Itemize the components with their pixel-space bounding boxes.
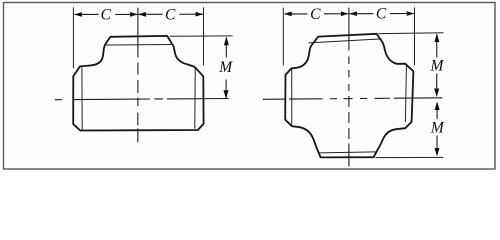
arrowhead M-bottom up (cross)	[435, 102, 440, 111]
svg-text:M: M	[218, 59, 233, 76]
M extension line from top branch (cross)	[379, 32, 444, 35]
arrowhead M-top up (cross)	[434, 34, 439, 43]
border frame	[4, 3, 496, 170]
tee right bevel line	[194, 68, 196, 129]
arrowhead C-right inner	[138, 12, 146, 17]
arrowhead C-left outer (cross)	[284, 12, 292, 17]
C dimension extension line right (cross)	[414, 8, 416, 66]
C dimension extension line left (cross)	[282, 8, 284, 66]
cross horizontal centerline	[263, 98, 443, 100]
M top dimension line (cross)	[436, 35, 438, 96]
svg-text:M: M	[430, 120, 445, 137]
C dimension extension line left	[72, 7, 74, 68]
svg-text:M: M	[429, 58, 444, 75]
tee outline	[73, 36, 203, 131]
arrowhead C-right outer (cross)	[407, 11, 415, 16]
cross bottom branch face line	[319, 152, 376, 153]
cross top branch face line	[309, 39, 382, 43]
arrowhead M-top down (cross)	[434, 89, 439, 98]
M bottom extension line from bottom branch face	[376, 156, 444, 158]
C dimension line right half (cross)	[350, 13, 414, 15]
arrowhead C-right outer	[196, 12, 204, 17]
C dimension extension line right	[203, 7, 205, 65]
cross outline	[285, 34, 413, 158]
svg-text:C: C	[310, 6, 321, 23]
cross left bevel line	[291, 69, 293, 125]
svg-text:C: C	[101, 7, 112, 24]
M dimension line (tee)	[225, 38, 227, 99]
tee horizontal centerline	[55, 99, 229, 100]
M bottom dimension line (cross)	[436, 103, 438, 155]
arrowhead C-left inner (cross)	[341, 11, 349, 16]
arrowhead C-left outer	[74, 12, 82, 17]
arrowhead M-top (tee)	[224, 37, 229, 46]
C dimension line left half	[75, 13, 138, 15]
arrowhead C-right inner (cross)	[349, 11, 357, 16]
M extension line from branch top	[170, 35, 233, 37]
svg-text:C: C	[165, 7, 176, 24]
svg-text:C: C	[376, 6, 387, 23]
tee left bevel line	[81, 67, 83, 129]
arrowhead M-bottom down (cross)	[435, 148, 440, 156]
tee branch face line	[106, 44, 173, 47]
C dimension line left half (cross)	[284, 13, 348, 15]
tee vertical centerline	[137, 8, 139, 143]
arrowhead M-bottom (tee)	[224, 90, 229, 99]
cross vertical centerline	[348, 8, 350, 167]
arrowhead C-left inner	[130, 12, 138, 17]
cross right bevel line	[405, 66, 406, 122]
C dimension line right half	[138, 13, 203, 15]
